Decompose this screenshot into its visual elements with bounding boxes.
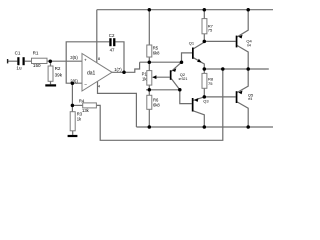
node output Q1 emitter [203,67,207,71]
resistor R1 [32,51,48,69]
svg-text:1(7): 1(7) [114,67,122,72]
node inverting input [71,81,75,85]
wire negative rail [136,126,273,128]
transistor Q5 [236,91,254,104]
svg-text:8: 8 [98,56,101,61]
transistor Q4 [236,35,253,48]
svg-text:R3: R3 [77,111,83,116]
wire node X to Q1 base [182,53,193,62]
wire Q3 collector to negative rail [193,111,204,127]
wire input terminal to C1 [7,60,17,62]
wire Q5 collector to negative rail [237,102,248,127]
ground (R3) [68,135,78,137]
svg-text:R4: R4 [79,99,85,104]
transistor Q2 [170,68,188,81]
node rail R7 [203,8,207,12]
wire Q3 emitter node to Q5 base [204,96,235,98]
svg-text:п4: п4 [247,43,251,47]
svg-text:C2: C2 [109,33,115,38]
svg-text:13k: 13k [82,108,90,113]
node X Q1 base [180,60,184,64]
svg-text:п4: п4 [248,97,252,101]
resistor R3 [70,111,83,130]
resistor R5 [147,45,160,57]
capacitor C2 [109,33,116,53]
wire Q5 emitter to output node [237,69,248,92]
op-amp U1 da1 [70,54,122,92]
node rail Q4 [246,8,250,12]
svg-text:6k8: 6k8 [153,103,160,108]
svg-text:C1: C1 [15,50,21,55]
node Y P1 bottom [148,88,152,92]
wire node Y to Q3 base [180,90,192,104]
wire R2 to ground [50,81,52,84]
wire C2 left to inverting input [66,42,109,83]
wire output node to R8 [203,69,205,73]
wire R1 to op-amp noninverting input [47,60,82,62]
wire Q2 collector diagonal [171,62,181,71]
resistor R7 [202,19,214,34]
resistor R2 [48,66,63,81]
wire C1 to R1 [25,60,32,62]
node negative rail Q3 [203,125,207,129]
input terminal [7,59,8,63]
transistor Q1 [189,41,202,63]
svg-text:39k: 39k [55,72,63,77]
transistor Q3 [192,98,210,112]
resistor R8 [202,73,214,88]
wire node B to R4 [72,104,82,106]
node output feedback [221,67,225,71]
svg-text:47: 47 [110,48,115,53]
wire Q4 collector to output node [237,46,248,69]
node R3 R4 junction [71,104,75,108]
wire inverting node down [71,83,73,105]
wire Q1 collector to R7 [194,34,205,49]
svg-text:1u: 1u [16,66,22,71]
svg-text:75: 75 [208,81,213,86]
wire P1 wiper to Q2 base [153,76,170,78]
wire Q4 emitter to positive rail [237,10,248,37]
node negative rail Q5 [246,125,250,129]
node Y Q3 base [178,88,182,92]
svg-text:Q1: Q1 [189,41,195,46]
wire Q1 emitter to output line [194,58,205,69]
svg-text:1k: 1k [77,117,82,122]
wire node Y line [146,89,180,91]
node Q3 emitter R8 [203,95,207,99]
node Q4 base [203,40,207,44]
svg-text:P1: P1 [142,71,148,76]
wire output line [204,68,268,70]
wire node X line [140,61,182,63]
wire R8 to Q3 emitter node [203,88,205,97]
wire Q3 emitter diagonal [193,97,204,100]
svg-text:−: − [84,83,87,88]
svg-text:Q3: Q3 [203,98,209,103]
wire node B to R3 [71,105,73,111]
resistor R6 [147,95,161,109]
ground (R2) [45,84,56,86]
node rail R5 [148,8,152,12]
wire R4 to feedback bottom run [96,69,222,140]
node input after R1 [49,59,53,63]
svg-text:3(5): 3(5) [70,55,78,60]
wire node A to R2 [50,61,52,66]
wire Q1 collector node to Q4 base [204,40,235,42]
wire op-amp pin4 to negative rail [98,81,137,127]
resistor R4 [79,99,96,113]
node negative rail R6 [148,125,152,129]
svg-text:75: 75 [208,28,213,33]
wire positive rail to R5 [148,10,150,45]
svg-text:+: + [84,59,87,64]
wire R7 to positive rail [203,10,205,19]
node output Q4 Q5 [246,67,250,71]
svg-text:4: 4 [98,84,101,89]
svg-text:R2: R2 [55,66,61,71]
svg-text:R1: R1 [33,51,39,56]
wire Q2 emitter diagonal [171,79,179,90]
wire positive rail [97,9,273,11]
wire op-amp pin8 to positive rail [96,10,98,63]
wire P1 bottom to node Y [148,85,150,95]
capacitor C1 [15,50,25,70]
wire op-amp output to node X [112,62,140,72]
wire R3 to ground [72,131,74,135]
wire R6 to negative rail [148,109,150,127]
svg-text:6k8: 6k8 [153,51,160,56]
wire C2 right to op-amp output [115,42,124,73]
potentiometer P1 [142,71,157,86]
svg-text:da1: da1 [87,70,96,76]
node C2 output junction [122,71,126,75]
wire R5 to P1 top [148,57,150,71]
node X P1 top [148,60,152,64]
svg-text:150: 150 [33,63,41,68]
svg-text:кт321: кт321 [179,77,188,81]
